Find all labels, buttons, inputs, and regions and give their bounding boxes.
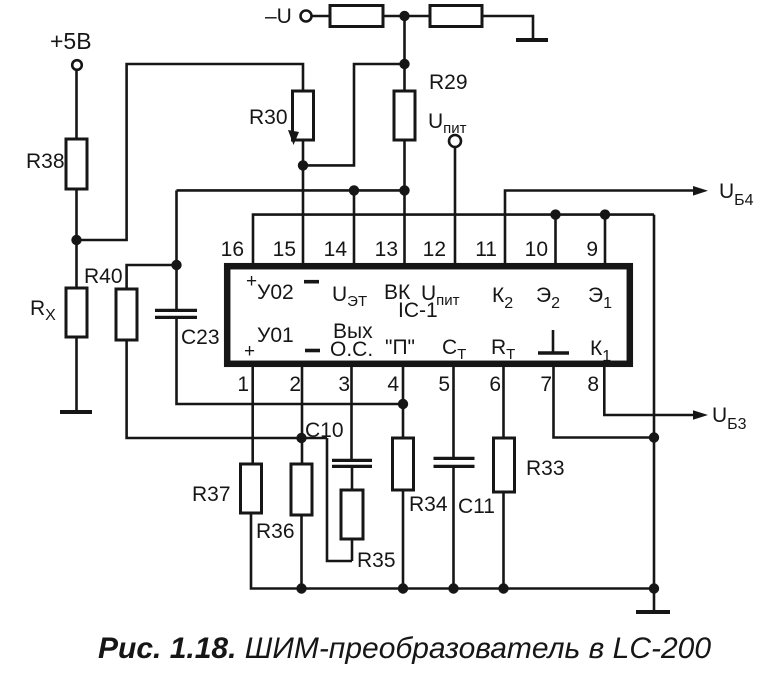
svg-text:15: 15 [273, 238, 296, 261]
wire reference rail [177, 189, 405, 192]
wire UB4 output [505, 191, 695, 265]
node [298, 160, 308, 170]
wire [75, 189, 78, 288]
svg-text:–U: –U [265, 5, 292, 28]
wire [75, 70, 78, 139]
wire pin15 lead [302, 140, 305, 264]
resistor R37 [192, 464, 262, 513]
wire [312, 15, 331, 18]
wire [482, 16, 533, 40]
resistor R34 [393, 438, 448, 516]
node [498, 583, 508, 593]
capacitor C23 [155, 310, 220, 349]
wire pin8 lead UB3 [604, 366, 695, 415]
svg-text:R33: R33 [526, 457, 565, 480]
node [398, 583, 408, 593]
wire pin10 lead [554, 215, 557, 264]
resistor (top divider, right) [430, 6, 482, 27]
IC pin label minus (pin2) [305, 349, 320, 353]
wire pin9 lead [604, 215, 607, 264]
svg-text:R30: R30 [249, 106, 288, 129]
svg-text:8: 8 [587, 373, 599, 396]
wire R33 bottom [502, 492, 505, 589]
svg-text:О.С.: О.С. [330, 338, 373, 361]
capacitor C10 [305, 419, 372, 466]
svg-text:R37: R37 [192, 483, 231, 506]
svg-text:6: 6 [489, 373, 501, 396]
svg-text:C10: C10 [305, 419, 344, 442]
resistor R36 [256, 464, 312, 543]
svg-text:3: 3 [338, 373, 350, 396]
node [600, 209, 610, 219]
node (divider tap) [399, 11, 409, 21]
svg-text:+: + [246, 271, 257, 292]
wire right column [653, 215, 656, 589]
svg-text:1: 1 [237, 373, 249, 396]
wire R34 bottom [402, 490, 405, 589]
wire [383, 15, 430, 18]
resistor R30 (trimmer) [249, 91, 314, 145]
svg-text:5: 5 [438, 373, 450, 396]
wire pin7 lead [554, 366, 655, 438]
svg-text:R40: R40 [84, 265, 123, 288]
wire pin12 lead [454, 147, 457, 264]
wire R40 bottom rail [127, 340, 327, 438]
resistor R40 [84, 265, 137, 340]
svg-text:14: 14 [324, 238, 348, 261]
arrow UB3 [693, 410, 708, 419]
resistor (top divider, left) [330, 6, 383, 27]
wire wiper link [303, 64, 405, 165]
node [649, 583, 659, 593]
wire C10 to R35 [351, 467, 354, 490]
wire pin13 lead [403, 140, 406, 264]
svg-text:У01: У01 [257, 324, 294, 347]
svg-text:12: 12 [423, 238, 446, 261]
IC internal ground symbol [538, 330, 569, 353]
wire pin4 lead [402, 366, 405, 438]
terminal -U [265, 5, 312, 28]
wire C23 bottom to pin4 rail [177, 319, 404, 404]
node [296, 433, 306, 443]
wire pin14 lead [353, 190, 356, 264]
arrow UB4 [693, 186, 708, 196]
node [448, 583, 458, 593]
svg-text:C23: C23 [181, 326, 220, 349]
wire pin1 lead [251, 366, 254, 464]
wire [403, 16, 406, 91]
wire pin2 lead [301, 366, 304, 464]
resistor R38 [26, 139, 87, 189]
svg-text:R38: R38 [26, 150, 65, 173]
svg-text:IC-1: IC-1 [398, 299, 438, 322]
wire R37 bottom + ground rail [251, 513, 654, 589]
node [398, 399, 408, 409]
resistor R29 [394, 71, 468, 140]
node [296, 583, 306, 593]
svg-text:R29: R29 [429, 71, 468, 94]
node [649, 432, 659, 442]
op-amp IC-1 box [227, 266, 630, 364]
wire C23 column [175, 190, 178, 309]
ground (bottom right) [636, 610, 670, 614]
node [399, 59, 409, 69]
ground (top) [516, 38, 548, 42]
wire pin5 lead [452, 366, 455, 457]
wire C11 bottom [452, 467, 455, 589]
node [171, 260, 181, 270]
wire R35 bottom [351, 539, 354, 561]
svg-text:9: 9 [586, 238, 598, 261]
IC pin label minus (pin15) [304, 280, 319, 284]
svg-text:R35: R35 [357, 549, 396, 572]
wire R40 top link [127, 265, 177, 289]
node [399, 185, 409, 195]
capacitor C11 [434, 458, 495, 518]
svg-text:У02: У02 [257, 281, 294, 304]
wire pin3 lead [350, 366, 353, 459]
node [550, 209, 560, 219]
wire emitter rail from pin16 [253, 215, 654, 264]
wire R36 bottom [300, 515, 303, 589]
ground (left) [60, 410, 92, 414]
resistor R33 [494, 438, 565, 492]
svg-text:16: 16 [221, 238, 244, 261]
svg-text:4: 4 [387, 373, 399, 396]
resistor RX [30, 288, 87, 337]
terminal Upit [428, 110, 467, 147]
IC pin label U02+ [246, 271, 294, 304]
svg-text:2: 2 [289, 373, 301, 396]
svg-text:10: 10 [525, 238, 548, 261]
svg-text:R36: R36 [256, 520, 295, 543]
wire pin6 lead [502, 366, 505, 438]
wire to R35 bottom [327, 438, 352, 561]
wire +5V rail [77, 64, 304, 240]
svg-text:Рис. 1.18. ШИМ-преобразователь: Рис. 1.18. ШИМ-преобразователь в LC-200 [98, 632, 711, 665]
IC pin label U01+ [244, 324, 294, 362]
resistor R35 [341, 490, 396, 572]
svg-text:11: 11 [475, 238, 497, 261]
terminal +5V [50, 28, 92, 70]
svg-text:C11: C11 [458, 495, 495, 518]
svg-text:+: + [244, 341, 255, 362]
svg-text:R34: R34 [409, 493, 448, 516]
svg-text:7: 7 [540, 373, 552, 396]
IC pin label Vyh O.S. [330, 320, 373, 361]
node [71, 235, 81, 245]
svg-text:13: 13 [375, 238, 398, 261]
svg-text:"П": "П" [385, 336, 415, 359]
svg-text:+5В: +5В [50, 28, 92, 54]
wire [75, 337, 78, 410]
node [349, 185, 359, 195]
wire to bottom ground [653, 589, 656, 612]
